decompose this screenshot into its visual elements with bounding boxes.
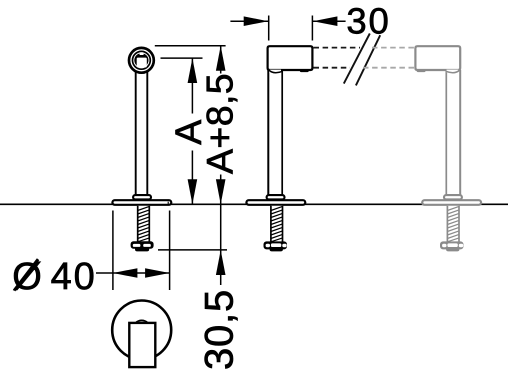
gray post: stem left edge — [445, 71, 447, 196]
extension line for A (head centre) — [161, 57, 203, 59]
front view: stem right edge — [146, 71, 148, 196]
front view: nut slot right — [143, 244, 151, 247]
gray post: threaded rod — [447, 206, 459, 242]
gray post: nut body — [440, 241, 464, 249]
gray post: flange — [422, 200, 481, 205]
dimension 30: left segment — [230, 16, 268, 26]
svg-text:40: 40 — [51, 256, 97, 298]
break slash right — [356, 35, 380, 85]
side view black post: threaded rod — [271, 206, 283, 242]
front view: nut slot left — [133, 244, 141, 247]
side view black post: head block — [268, 46, 313, 70]
front view: nut body — [131, 241, 154, 248]
side view black post: flange — [246, 200, 305, 205]
front view: stem left edge — [135, 71, 137, 196]
side view black post: collar — [267, 195, 285, 199]
extension line flange left — [112, 211, 114, 291]
front view: flange — [112, 200, 171, 205]
side view black post: nut slot left — [266, 244, 270, 248]
extension line for A+8,5 (head top) — [155, 45, 226, 47]
dimension line A+8,5 — [216, 46, 226, 204]
front view: bore top notch — [140, 52, 144, 55]
front view: head outer circle — [129, 48, 154, 73]
front view: washer — [135, 248, 149, 251]
side view black post: block bottom shadow — [300, 69, 309, 72]
side view black: rail dashed top line — [314, 47, 361, 49]
side view black: rail dashed bottom line — [314, 67, 351, 69]
side view black post: nut slot right — [282, 244, 286, 248]
front view: collar — [133, 195, 151, 199]
side view black post: stem left edge — [267, 70, 269, 196]
front view: threaded rod — [138, 206, 150, 242]
svg-text:A+8,5: A+8,5 — [199, 73, 241, 174]
side view black post: block-stem fillet — [269, 70, 281, 73]
gray post: washer — [446, 249, 459, 251]
extension tick right (block right edge) — [311, 16, 313, 41]
svg-text:30,5: 30,5 — [197, 289, 241, 370]
top view: holder rectangle — [129, 323, 155, 367]
top view: flange circle — [112, 301, 171, 360]
side view black post: washer — [270, 249, 283, 251]
dimension line diameter 40 — [96, 268, 170, 278]
side view black post: nut slot middle — [271, 243, 281, 247]
gray rail dashed bottom line — [363, 67, 415, 69]
gray post: nut slot middle — [447, 243, 457, 247]
side view black post: nut body — [264, 241, 288, 249]
gray post: collar — [444, 195, 462, 199]
gray post: stem right edge — [459, 70, 461, 196]
gray post: block-stem fillet — [447, 70, 459, 73]
front view: set screw face — [137, 58, 147, 68]
top view: bore arc — [133, 320, 150, 337]
front view: neck shadow — [138, 71, 146, 74]
break slash left — [344, 34, 370, 84]
front view: head inner circle — [133, 51, 151, 69]
gray post: block bottom shadow — [417, 69, 426, 72]
diameter slash extension — [14, 259, 38, 290]
dimension 30: right segment — [312, 16, 345, 26]
dimension 30,5 line — [216, 204, 226, 285]
gray rail dashed top line — [372, 47, 415, 49]
mounting surface line — [0, 203, 508, 205]
extension tick left (block left edge) — [268, 16, 270, 41]
gray post: head block — [415, 46, 460, 70]
extension line nut bottom — [158, 249, 227, 251]
gray post: nut slot right — [459, 244, 463, 248]
dimension line A — [188, 58, 198, 204]
side view black post: stem right edge — [281, 71, 283, 196]
gray post: nut slot left — [442, 244, 446, 248]
extension line flange right — [169, 211, 171, 291]
front view: head bore — [134, 53, 148, 67]
front view: flange inner tick — [167, 202, 169, 205]
